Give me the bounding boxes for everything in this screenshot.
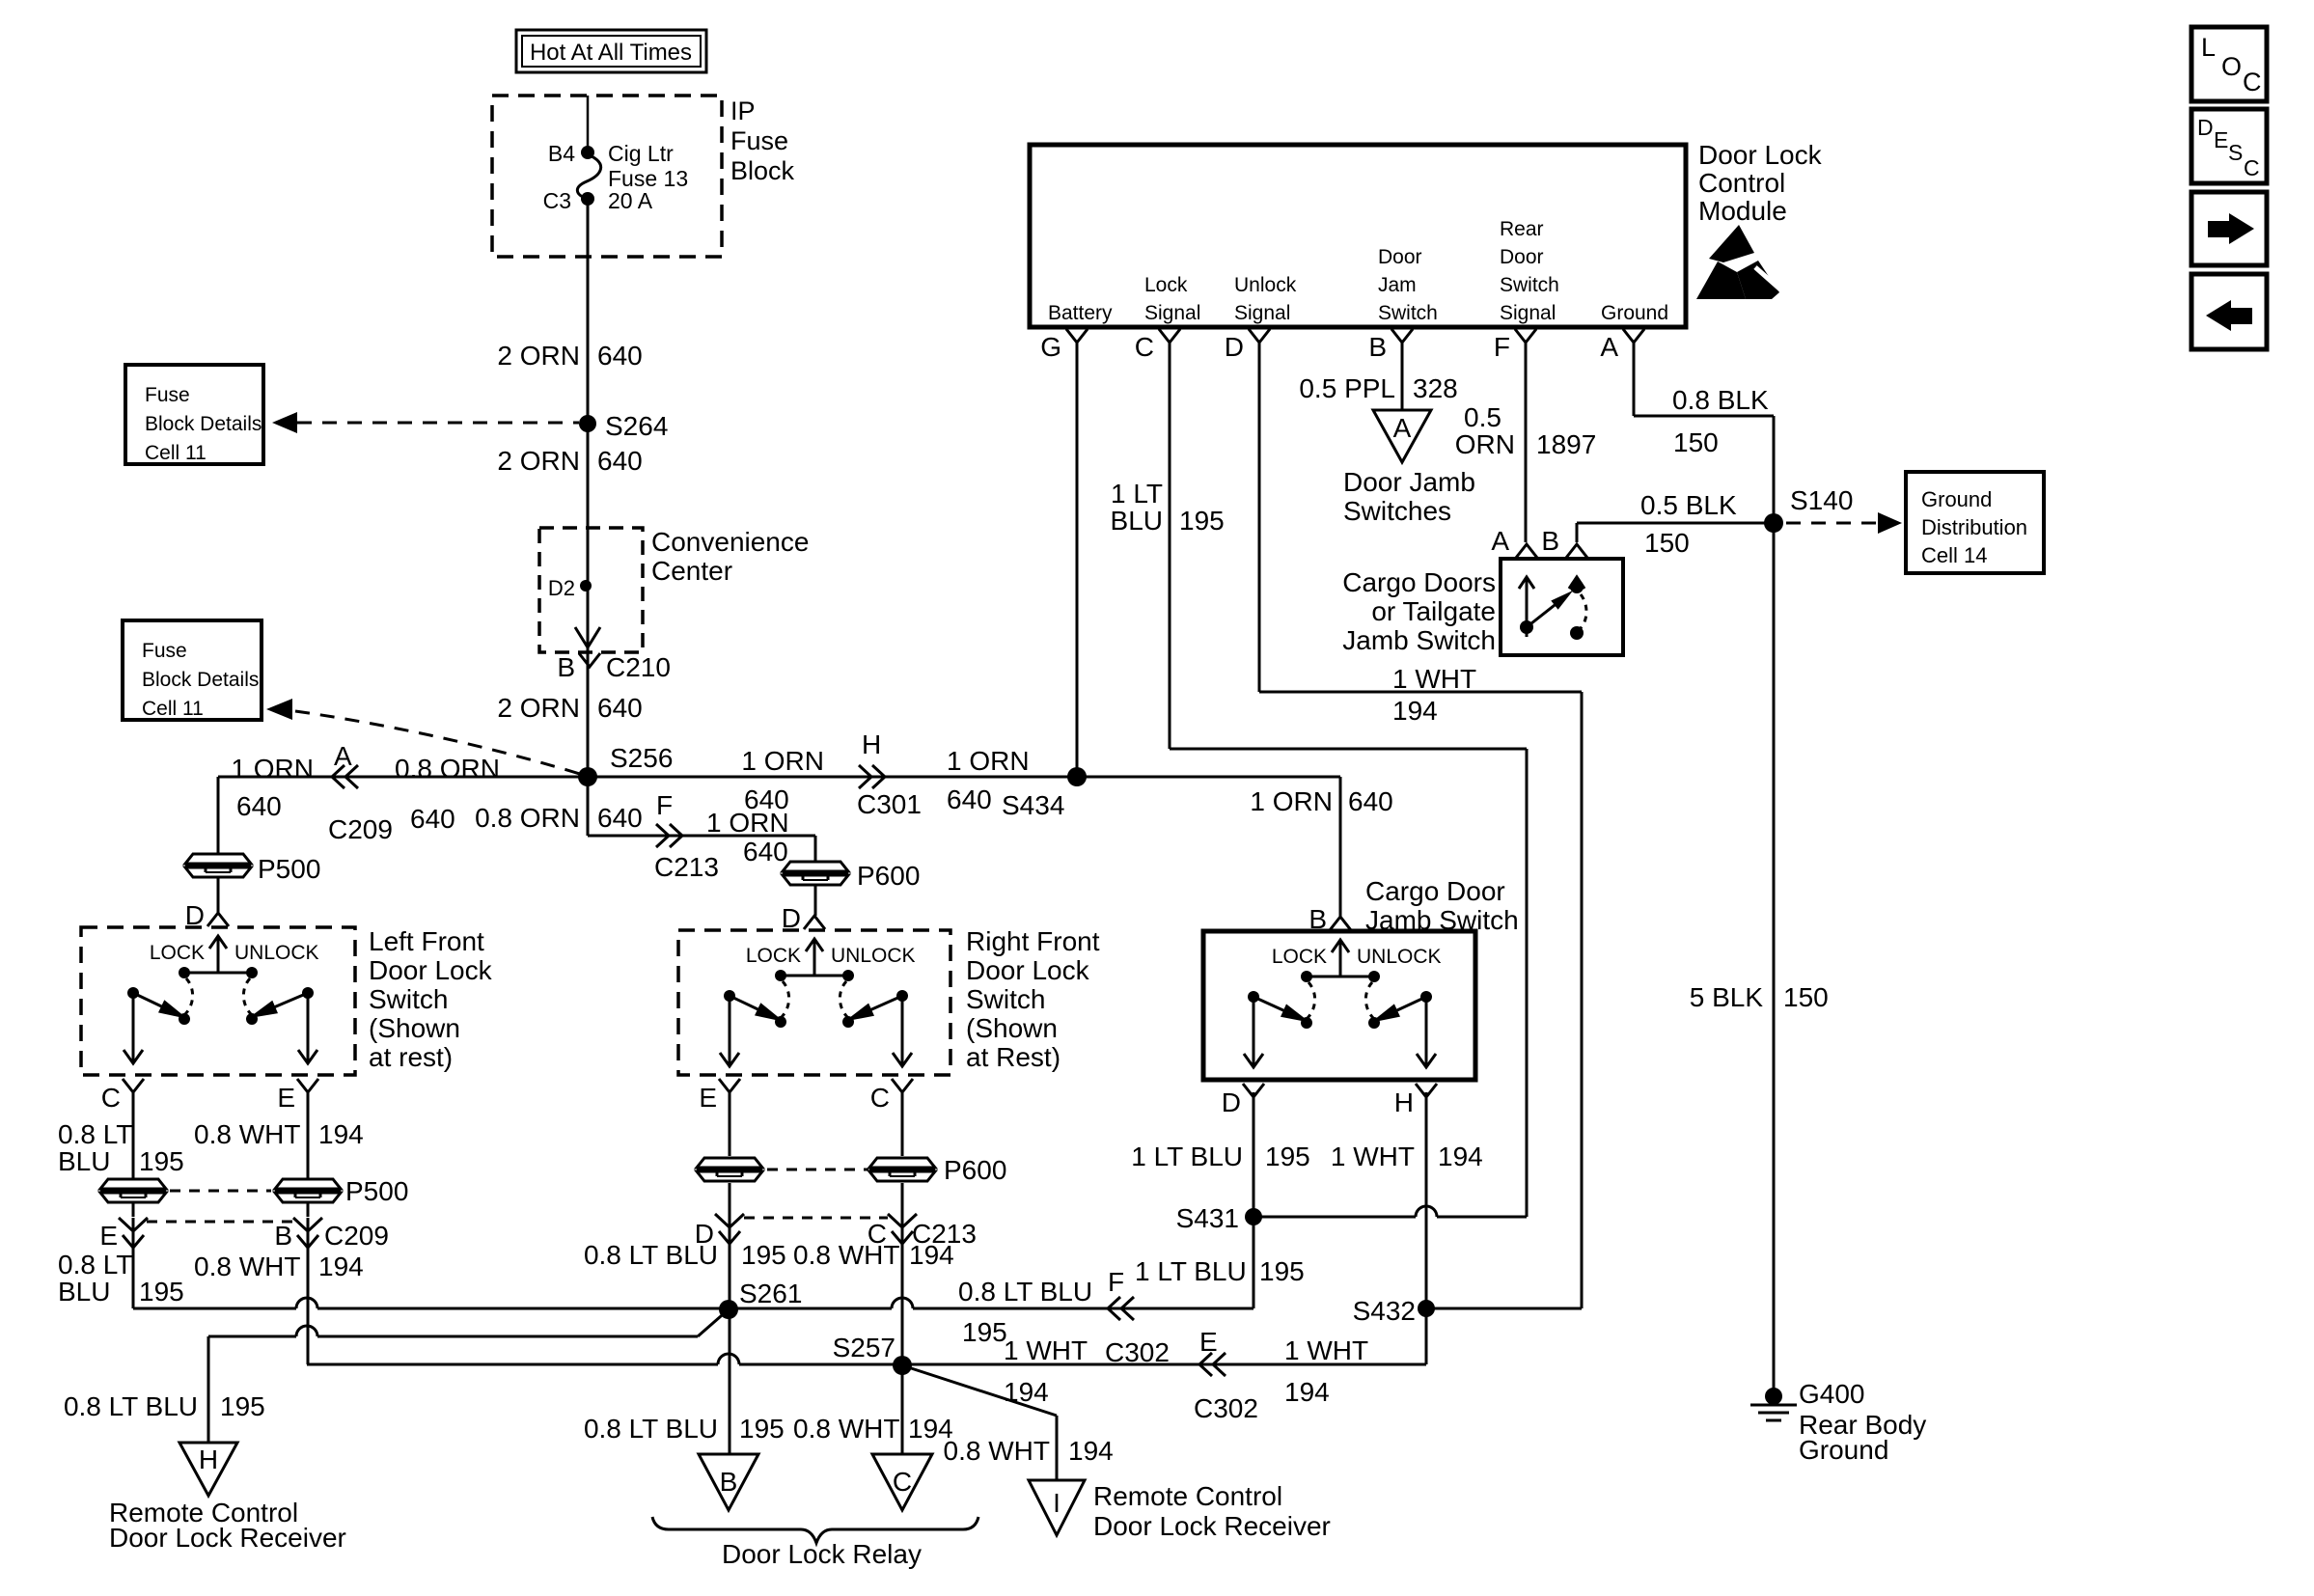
svg-text:D: D: [185, 900, 205, 930]
svg-text:195: 195: [139, 1146, 184, 1176]
svg-text:E: E: [277, 1083, 295, 1113]
svg-text:Door Lock Receiver: Door Lock Receiver: [1093, 1511, 1331, 1541]
svg-text:A: A: [1393, 413, 1412, 443]
svg-text:C301: C301: [857, 789, 922, 819]
svg-text:195: 195: [741, 1240, 786, 1270]
svg-text:1 LT BLU: 1 LT BLU: [1131, 1142, 1243, 1171]
svg-text:640: 640: [597, 693, 643, 723]
svg-text:P500: P500: [345, 1176, 408, 1206]
svg-text:1 ORN: 1 ORN: [741, 746, 824, 776]
svg-text:0.8 LT: 0.8 LT: [58, 1119, 132, 1149]
svg-text:LOCK: LOCK: [1272, 946, 1327, 968]
svg-text:1 WHT: 1 WHT: [1284, 1335, 1368, 1365]
svg-text:B: B: [1368, 332, 1387, 362]
svg-text:D: D: [2197, 115, 2214, 140]
svg-text:Block: Block: [730, 156, 795, 185]
svg-text:195: 195: [1259, 1256, 1305, 1286]
svg-text:H: H: [1394, 1087, 1414, 1117]
svg-text:BLU: BLU: [1111, 506, 1163, 536]
svg-text:Cell 11: Cell 11: [145, 442, 207, 464]
svg-text:Door Lock Receiver: Door Lock Receiver: [109, 1523, 346, 1553]
svg-text:S261: S261: [739, 1279, 802, 1308]
svg-text:Door Lock: Door Lock: [1698, 140, 1823, 170]
svg-text:C302: C302: [1194, 1393, 1258, 1423]
svg-text:1 WHT: 1 WHT: [1004, 1335, 1088, 1365]
svg-text:Signal: Signal: [1144, 302, 1200, 324]
svg-text:S264: S264: [605, 411, 668, 441]
svg-text:0.8 LT BLU: 0.8 LT BLU: [584, 1240, 718, 1270]
svg-text:Block Details: Block Details: [145, 413, 262, 435]
svg-text:or Tailgate: or Tailgate: [1371, 596, 1496, 626]
svg-text:Jamb Switch: Jamb Switch: [1342, 625, 1496, 655]
svg-text:1897: 1897: [1536, 429, 1596, 459]
svg-text:2 ORN: 2 ORN: [497, 446, 580, 476]
svg-text:B: B: [1309, 904, 1327, 934]
svg-text:C: C: [870, 1083, 890, 1113]
svg-text:C209: C209: [328, 814, 393, 844]
svg-text:LOCK: LOCK: [150, 942, 205, 964]
svg-text:150: 150: [1783, 982, 1829, 1012]
svg-text:Fuse: Fuse: [730, 126, 788, 155]
svg-text:C213: C213: [654, 852, 719, 882]
svg-text:F: F: [1494, 332, 1510, 362]
svg-text:BLU: BLU: [58, 1146, 110, 1176]
svg-text:BLU: BLU: [58, 1277, 110, 1307]
svg-text:194: 194: [909, 1240, 954, 1270]
svg-text:LOCK: LOCK: [746, 945, 801, 967]
svg-text:195: 195: [1265, 1142, 1310, 1171]
svg-text:640: 640: [1348, 786, 1393, 816]
svg-text:Switch: Switch: [966, 984, 1045, 1014]
svg-text:at rest): at rest): [369, 1042, 453, 1072]
svg-text:Fuse: Fuse: [142, 640, 187, 662]
svg-text:A: A: [334, 741, 352, 771]
svg-text:0.8 WHT: 0.8 WHT: [194, 1119, 300, 1149]
svg-text:194: 194: [1392, 696, 1438, 726]
svg-text:194: 194: [1068, 1436, 1114, 1466]
svg-text:0.8 LT BLU: 0.8 LT BLU: [64, 1391, 198, 1421]
svg-text:2 ORN: 2 ORN: [497, 341, 580, 371]
svg-text:640: 640: [947, 784, 992, 814]
svg-text:640: 640: [597, 803, 643, 833]
svg-text:Door: Door: [1378, 246, 1422, 268]
svg-text:G: G: [1040, 332, 1061, 362]
svg-text:(Shown: (Shown: [369, 1013, 460, 1043]
svg-text:L: L: [2201, 33, 2216, 62]
svg-text:C: C: [101, 1083, 121, 1113]
svg-text:at Rest): at Rest): [966, 1042, 1061, 1072]
svg-text:P600: P600: [944, 1155, 1006, 1185]
svg-text:C302: C302: [1105, 1337, 1170, 1367]
svg-text:640: 640: [743, 837, 788, 867]
svg-text:B: B: [557, 652, 575, 682]
svg-text:Jam: Jam: [1378, 274, 1417, 296]
svg-text:Module: Module: [1698, 196, 1787, 226]
svg-text:1 ORN: 1 ORN: [231, 754, 314, 784]
svg-text:S140: S140: [1790, 485, 1853, 515]
svg-text:E: E: [699, 1083, 717, 1113]
svg-text:640: 640: [597, 341, 643, 371]
svg-text:Switch: Switch: [1500, 274, 1559, 296]
svg-text:20 A: 20 A: [608, 188, 653, 213]
svg-text:0.8 ORN: 0.8 ORN: [475, 803, 580, 833]
svg-text:150: 150: [1644, 528, 1690, 558]
svg-text:Cargo Door: Cargo Door: [1365, 876, 1505, 906]
svg-text:Left Front: Left Front: [369, 926, 484, 956]
svg-text:A: A: [1600, 332, 1618, 362]
svg-text:0.5 PPL: 0.5 PPL: [1299, 373, 1395, 403]
svg-text:B4: B4: [548, 141, 575, 166]
svg-text:194: 194: [318, 1119, 364, 1149]
svg-text:Cargo Doors: Cargo Doors: [1342, 567, 1496, 597]
svg-text:Cell 14: Cell 14: [1921, 543, 1987, 567]
svg-text:194: 194: [1004, 1377, 1049, 1407]
svg-text:Fuse: Fuse: [145, 384, 190, 406]
svg-text:S434: S434: [1002, 790, 1064, 820]
svg-text:C210: C210: [606, 652, 671, 682]
svg-text:Cell 11: Cell 11: [142, 698, 204, 720]
svg-text:1 LT BLU: 1 LT BLU: [1135, 1256, 1247, 1286]
svg-text:0.8 WHT: 0.8 WHT: [194, 1252, 300, 1281]
svg-text:H: H: [199, 1445, 218, 1474]
svg-text:C: C: [893, 1467, 912, 1497]
svg-text:195: 195: [962, 1317, 1007, 1347]
svg-text:Switches: Switches: [1343, 496, 1451, 526]
svg-text:195: 195: [220, 1391, 265, 1421]
svg-text:Distribution: Distribution: [1921, 515, 2027, 539]
svg-text:F: F: [656, 790, 673, 820]
svg-text:D: D: [1222, 1087, 1241, 1117]
svg-text:Rear: Rear: [1500, 218, 1544, 240]
svg-text:C3: C3: [543, 188, 571, 213]
svg-text:G400: G400: [1799, 1379, 1865, 1409]
svg-text:Control: Control: [1698, 168, 1785, 198]
svg-text:0.8 BLK: 0.8 BLK: [1672, 385, 1769, 415]
svg-text:1 ORN: 1 ORN: [947, 746, 1030, 776]
svg-text:0.5: 0.5: [1464, 402, 1501, 432]
svg-text:Lock: Lock: [1144, 274, 1188, 296]
svg-text:1 LT: 1 LT: [1111, 479, 1163, 509]
svg-text:1 ORN: 1 ORN: [706, 808, 789, 838]
svg-text:D2: D2: [548, 576, 575, 600]
svg-text:1 WHT: 1 WHT: [1331, 1142, 1415, 1171]
svg-text:C209: C209: [324, 1221, 389, 1251]
svg-text:640: 640: [410, 804, 455, 834]
svg-text:194: 194: [1438, 1142, 1483, 1171]
svg-text:UNLOCK: UNLOCK: [234, 942, 319, 964]
svg-text:Door Jamb: Door Jamb: [1343, 467, 1475, 497]
svg-text:0.8 WHT: 0.8 WHT: [793, 1414, 899, 1444]
svg-text:Door Lock: Door Lock: [369, 955, 493, 985]
svg-text:ORN: ORN: [1455, 429, 1515, 459]
svg-text:0.8 WHT: 0.8 WHT: [793, 1240, 899, 1270]
svg-text:Ground: Ground: [1921, 487, 1992, 511]
svg-text:B: B: [1541, 526, 1559, 556]
svg-text:Unlock: Unlock: [1234, 274, 1297, 296]
svg-text:0.8 LT: 0.8 LT: [58, 1250, 132, 1280]
svg-text:2 ORN: 2 ORN: [497, 693, 580, 723]
svg-text:5 BLK: 5 BLK: [1690, 982, 1764, 1012]
svg-text:O: O: [2221, 52, 2242, 81]
svg-text:0.5 BLK: 0.5 BLK: [1640, 490, 1737, 520]
svg-text:Signal: Signal: [1500, 302, 1556, 324]
svg-text:S431: S431: [1176, 1203, 1239, 1233]
svg-text:640: 640: [236, 791, 282, 821]
svg-text:1 ORN: 1 ORN: [1250, 786, 1333, 816]
svg-text:P600: P600: [857, 861, 920, 891]
svg-text:(Shown: (Shown: [966, 1013, 1058, 1043]
svg-text:D: D: [1225, 332, 1244, 362]
svg-text:S: S: [2228, 140, 2243, 165]
svg-text:UNLOCK: UNLOCK: [1357, 946, 1442, 968]
svg-text:194: 194: [318, 1252, 364, 1281]
svg-text:I: I: [1053, 1488, 1061, 1518]
svg-text:C: C: [2243, 68, 2262, 96]
svg-text:195: 195: [739, 1414, 785, 1444]
svg-text:F: F: [1108, 1267, 1124, 1297]
svg-text:Signal: Signal: [1234, 302, 1290, 324]
svg-text:E: E: [99, 1221, 118, 1251]
svg-text:UNLOCK: UNLOCK: [831, 945, 916, 967]
svg-text:B: B: [274, 1221, 292, 1251]
svg-text:H: H: [862, 729, 881, 759]
svg-text:Jamb Switch: Jamb Switch: [1365, 905, 1519, 935]
svg-text:E: E: [1199, 1327, 1218, 1357]
svg-text:C: C: [2244, 155, 2260, 180]
svg-text:B: B: [720, 1467, 738, 1497]
svg-text:Door Lock: Door Lock: [966, 955, 1090, 985]
svg-text:Hot At All Times: Hot At All Times: [530, 40, 692, 66]
svg-text:S256: S256: [610, 743, 673, 773]
svg-text:Door: Door: [1500, 246, 1544, 268]
svg-text:Ground: Ground: [1799, 1435, 1888, 1465]
svg-text:194: 194: [1284, 1377, 1330, 1407]
svg-text:150: 150: [1673, 427, 1719, 457]
svg-text:Block Details: Block Details: [142, 669, 259, 691]
svg-text:Ground: Ground: [1601, 302, 1668, 324]
svg-text:S432: S432: [1353, 1296, 1416, 1326]
svg-text:195: 195: [139, 1277, 184, 1307]
svg-text:Center: Center: [651, 556, 732, 586]
svg-text:D: D: [782, 903, 801, 933]
svg-text:S257: S257: [833, 1333, 895, 1362]
svg-text:Cig Ltr: Cig Ltr: [608, 141, 674, 166]
svg-text:0.8 ORN: 0.8 ORN: [395, 754, 500, 784]
svg-text:Right Front: Right Front: [966, 926, 1100, 956]
svg-text:195: 195: [1179, 506, 1225, 536]
svg-text:328: 328: [1413, 373, 1458, 403]
svg-text:IP: IP: [730, 96, 756, 125]
svg-text:Switch: Switch: [1378, 302, 1438, 324]
svg-text:Door Lock Relay: Door Lock Relay: [722, 1539, 922, 1569]
svg-text:Convenience: Convenience: [651, 527, 809, 557]
svg-text:C: C: [1135, 332, 1154, 362]
svg-text:P500: P500: [258, 854, 320, 884]
svg-text:E: E: [2214, 127, 2228, 152]
svg-text:Battery: Battery: [1048, 302, 1113, 324]
svg-text:Remote Control: Remote Control: [1093, 1481, 1282, 1511]
svg-text:1 WHT: 1 WHT: [1392, 664, 1476, 694]
svg-text:0.8 WHT: 0.8 WHT: [944, 1436, 1050, 1466]
svg-text:A: A: [1491, 526, 1509, 556]
svg-text:640: 640: [597, 446, 643, 476]
svg-text:0.8 LT BLU: 0.8 LT BLU: [958, 1277, 1092, 1307]
svg-text:0.8 LT BLU: 0.8 LT BLU: [584, 1414, 718, 1444]
svg-text:Switch: Switch: [369, 984, 448, 1014]
